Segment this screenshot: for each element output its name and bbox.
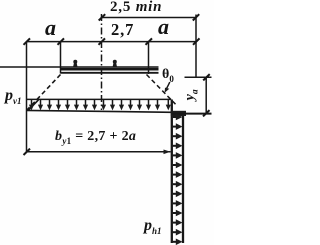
extension line V2 x=60.5 [60,42,62,74]
b_v1 dimension line [27,151,171,153]
label a (right) [158,14,169,40]
tick D2 x=60.5 [58,38,65,44]
arrowhead at b_v1 right end [164,150,171,155]
load strip bottom line [27,110,172,112]
y_a tick bottom [203,110,210,116]
label p_h1 [144,217,162,236]
label p_v1 [5,87,22,106]
load strip top line [27,98,172,100]
tick at b_v1 left end [24,149,31,155]
label b_v1 = 2,7 + 2a [55,129,136,146]
sleeper (ballast band) top edge [61,68,159,71]
tick D2 x=148.5 [146,38,153,44]
extension line V1 x=26.5 [26,42,28,153]
label y_a (rotated) [183,89,201,100]
rail right [113,60,118,67]
y_a top extension line [185,76,212,78]
y_a tick top [203,74,210,80]
label theta0 [162,67,174,84]
tick left of D1 [99,14,106,20]
dimension line D1 (2,5 min) [102,17,196,19]
extra hatch slash at strip left end [28,100,39,111]
tick right of D1 [193,14,199,20]
p_h1 arrows on wall [173,117,178,242]
label 2,5 min [110,0,162,16]
label 2,7 [111,20,134,40]
extension line V3 x=148.5 [148,42,150,74]
track centerline (dash-dot) x=101.5 [101,14,103,110]
p_v1 distributed arrows [32,100,169,107]
ground line left [0,66,159,68]
theta0 pointer arrow [167,82,170,89]
wall right face [182,113,184,243]
rail left [73,60,78,67]
wall/ground junction ink blob [171,111,186,116]
dimension line D2 (a | 2,7 | a) [27,41,197,43]
left load-spread dashed line [27,75,61,111]
y_a dimension line [205,77,207,113]
tick D2 x=101.5 [99,38,106,44]
ground line right of wall [172,113,212,115]
tick D2 x=26.5 [24,38,31,44]
wall left face [171,100,173,244]
right load-spread dashed line [147,75,176,105]
sleeper (ballast band) bottom edge [61,72,159,74]
extension line V4 x=196 [195,15,197,78]
label a (left) [45,15,56,41]
tick D2 x=196 [193,38,200,44]
